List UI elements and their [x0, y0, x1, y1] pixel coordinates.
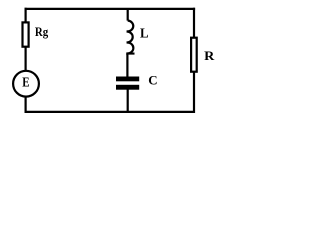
- resistor Rg: [23, 22, 29, 46]
- source E: [13, 71, 39, 97]
- wire right rail top segment: [193, 8, 195, 38]
- wire Rg to E: [25, 47, 27, 71]
- wire C to bottom rail: [127, 90, 129, 114]
- wire bottom rail: [25, 111, 195, 113]
- svg-text:C: C: [148, 73, 157, 88]
- svg-text:L: L: [140, 27, 149, 42]
- resistor R: [191, 38, 197, 72]
- inductor L: [126, 21, 134, 54]
- wire top rail: [25, 8, 196, 10]
- capacitor C top plate: [116, 77, 139, 82]
- svg-text:Rg: Rg: [35, 24, 49, 39]
- wire left rail top segment: [25, 8, 27, 23]
- wire E to bottom rail: [25, 96, 27, 113]
- svg-text:R: R: [204, 49, 215, 63]
- wire middle branch top: [127, 9, 129, 21]
- wire L to C: [126, 54, 128, 78]
- capacitor C bottom plate: [116, 85, 139, 90]
- svg-text:E: E: [22, 76, 29, 91]
- wire R to bottom rail: [193, 72, 195, 113]
